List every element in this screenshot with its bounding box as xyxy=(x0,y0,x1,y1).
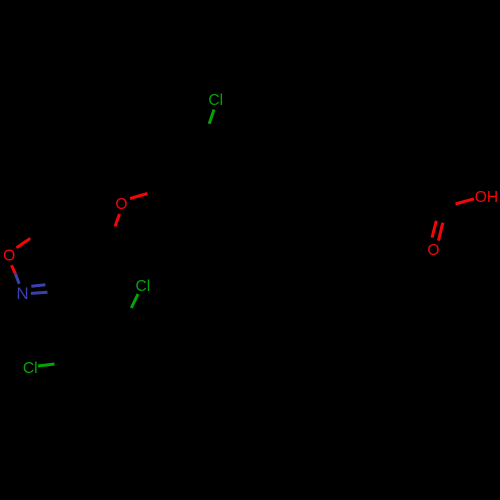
wire: C3=N double bond (carbon halves) xyxy=(45,285,61,287)
bond ether O - CH2, oxygen half (red) xyxy=(115,214,120,227)
wire: benzene ring B (dichlorophenyl) xyxy=(71,318,140,400)
bond isoxazole O1-N2, nitrogen half (blue) xyxy=(15,273,19,283)
bond C(ring A)-Cl1, chlorine half (green) xyxy=(209,110,214,124)
wire: ringB-C to Cl2 (carbon half) xyxy=(124,308,131,322)
bond C(ring B)-Cl2, chlorine half (green) xyxy=(131,294,138,308)
bond C(ring B)-Cl3, chlorine half (green) xyxy=(38,364,55,366)
wire: carboxyl C to OH (carbon half) xyxy=(440,204,456,207)
wire: benzene ring A (chloro/ether-substituted) xyxy=(151,117,238,197)
bond isoxazole O1-N2, oxygen half (red) xyxy=(12,265,16,273)
wire: isoxazole C4-C3 xyxy=(61,252,82,289)
svg-text:Cl: Cl xyxy=(23,360,38,377)
wire: chain ring A to acid xyxy=(238,168,440,207)
svg-text:Cl: Cl xyxy=(208,92,223,109)
bond carboxyl C-OH, oxygen half (red) xyxy=(456,199,475,204)
bond N2=C3 double, nitrogen halves (blue) xyxy=(31,285,45,287)
wire: bond ringA-C to Cl1 (carbon half) xyxy=(203,124,209,138)
wire: C3 to phenyl ring B ipso xyxy=(61,289,97,318)
wire: bond ringA-C to ether O (carbon half) xyxy=(146,189,162,194)
svg-text:O: O xyxy=(115,196,127,213)
bond isoxazole O1-C5, oxygen half (red) xyxy=(17,238,31,247)
wire: isoxazole C5-O1 (carbon half) xyxy=(30,230,44,239)
bond carboxyl C=O double, oxygen halves (red) xyxy=(432,221,436,238)
bond ether O - C(ring A), oxygen half (red) xyxy=(130,194,148,199)
wire: carboxyl C=O (carbon halves) xyxy=(436,206,440,221)
wire: isoxazole C4-C5 xyxy=(44,230,82,252)
carbon skeleton (black bonds, invisible on black background) xyxy=(30,117,456,400)
wire: ringB-C to Cl3 (carbon half) xyxy=(55,362,72,364)
svg-text:O: O xyxy=(427,242,439,259)
wire: CH2 to isoxazole C4 xyxy=(82,239,111,252)
svg-text:O: O xyxy=(3,247,15,264)
svg-text:N: N xyxy=(16,284,28,303)
svg-text:OH: OH xyxy=(475,189,498,206)
svg-text:Cl: Cl xyxy=(136,278,151,295)
wire: CH2 to ether O (carbon half) xyxy=(111,227,115,240)
